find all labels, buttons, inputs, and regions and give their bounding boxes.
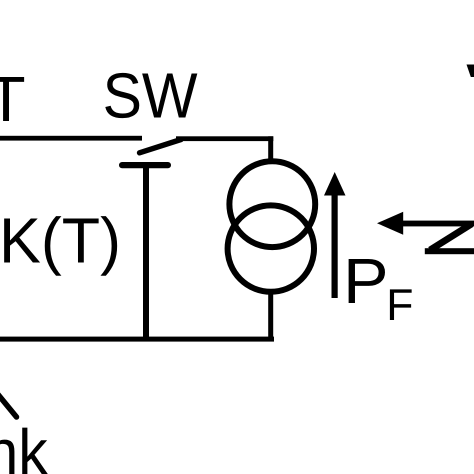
- arrow PF upward: [324, 172, 346, 298]
- current source U1 lower circle: [228, 205, 314, 291]
- label V (cropped at top right corner): [467, 65, 474, 78]
- svg-text:K(T): K(T): [0, 205, 121, 277]
- svg-text:SW: SW: [103, 60, 199, 132]
- wire bottom rail: [0, 337, 274, 342]
- switch SW fixed contact bar: [119, 162, 171, 168]
- wire switch pole down to bottom rail: [143, 167, 149, 341]
- wire right vertical upper (corner down to source): [268, 136, 273, 162]
- label Z (cropped at right edge): [425, 224, 474, 254]
- wire top rail left segment: [0, 136, 142, 141]
- wire source bottom to bottom-right corner: [268, 292, 273, 341]
- wire switch to top-right corner: [176, 136, 273, 141]
- svg-text:T: T: [0, 63, 26, 135]
- arrow pointing left (cropped at right edge): [377, 212, 474, 235]
- switch SW blade: [140, 140, 182, 153]
- svg-text:nk: nk: [0, 416, 49, 474]
- svg-text:P: P: [343, 245, 389, 317]
- current source U1 upper circle: [229, 161, 315, 247]
- annotation leader line to heat sink (cropped): [0, 392, 17, 417]
- svg-text:F: F: [386, 281, 413, 330]
